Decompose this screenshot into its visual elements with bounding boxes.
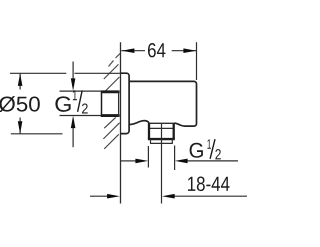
label O50	[0, 96, 15, 112]
body underside left curve	[129, 121, 149, 125]
hatch stroke 6	[103, 123, 119, 139]
hatch stroke 7	[104, 134, 119, 149]
dimension O50: top extension line (flange top level) left part	[10, 72, 66, 74]
outlet G1/2: left dim line	[121, 160, 137, 162]
inlet pipe right end line	[118, 91, 120, 118]
dimension O50: top extension line right part crossing wall	[75, 72, 121, 74]
left G1/2: upper dim line shaft	[72, 62, 74, 80]
dimension O50: bottom extension line	[11, 133, 63, 135]
outlet nipple top edge	[149, 122, 174, 124]
64 right arrow	[183, 48, 196, 53]
outlet G1/2: right dim line	[187, 160, 239, 162]
label 64	[148, 43, 156, 57]
dimension 64: right extension line above body	[196, 42, 198, 80]
outlet G1/2 right-pointing arrow	[135, 159, 148, 164]
flange (escutcheon)	[121, 73, 130, 133]
outlet centerline	[161, 124, 163, 204]
dimension O50: dim line upper segment	[19, 74, 21, 90]
O50 down arrow	[18, 121, 23, 134]
inlet pipe in wall: bottom thick edge	[101, 114, 120, 117]
collar bottom edge	[150, 142, 173, 144]
dimension 18-44: right dim line	[174, 195, 248, 197]
64 left arrow	[121, 48, 134, 53]
hatch stroke 1	[116, 54, 121, 59]
outlet G1/2: left extension line	[147, 146, 149, 168]
left G1/2: pipe bottom extension line	[60, 115, 102, 117]
left G1/2 up arrow	[71, 116, 76, 129]
dimension 64: line right segment	[172, 50, 197, 52]
label G 1/2 right	[190, 143, 203, 158]
18-44 left-pointing arrow	[162, 194, 175, 199]
dimension 64: line left segment	[121, 50, 145, 52]
inlet pipe in wall: top thick edge	[101, 90, 120, 93]
18-44 right-pointing arrow	[107, 194, 120, 199]
label G 1/2 left	[55, 96, 70, 111]
hatch stroke 5	[104, 117, 116, 128]
left G1/2: lower dim line shaft	[72, 128, 74, 148]
outlet G1/2 left-pointing arrow	[175, 159, 188, 164]
outlet nipple bottom thick edge	[148, 138, 175, 140]
elbow body outline	[130, 81, 197, 126]
collar right edge	[171, 139, 173, 143]
dimension 18-44: left dim line	[90, 195, 109, 197]
inlet pipe left edge	[101, 91, 103, 118]
collar left edge	[150, 139, 152, 143]
label 18-44	[188, 177, 195, 191]
wall hatching	[103, 54, 120, 149]
arrowheads	[18, 48, 197, 198]
hatch stroke 2	[109, 61, 114, 67]
O50 up arrow	[18, 73, 23, 86]
wall face line / extension line (64 top, 18-44 bottom)	[120, 42, 122, 203]
hatch stroke 3	[104, 64, 119, 79]
outlet nipple right edge	[173, 123, 175, 139]
outlet G1/2: right extension line	[174, 146, 176, 171]
outlet nipple thread shoulder line	[150, 127, 174, 129]
left G1/2 down arrow	[71, 78, 76, 91]
left G1/2: pipe top extension line	[60, 90, 102, 92]
hatch stroke 4	[105, 77, 120, 92]
outlet nipple left edge	[148, 123, 150, 139]
dimension O50: dim line lower segment	[19, 118, 21, 134]
